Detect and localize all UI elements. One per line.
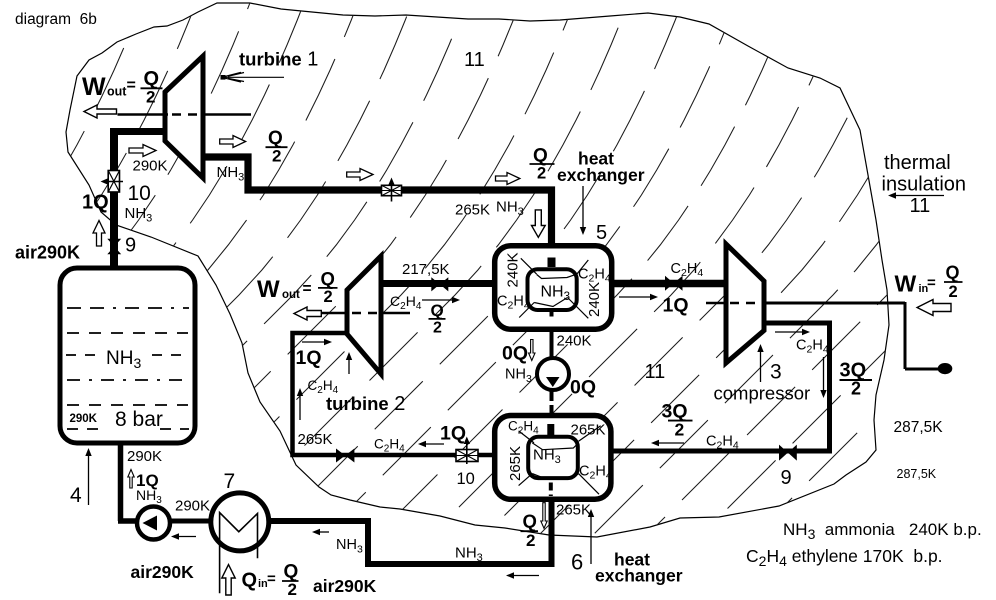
svg-text:insulation: insulation — [882, 174, 967, 196]
svg-text:5: 5 — [596, 222, 607, 244]
svg-text:air290K: air290K — [131, 562, 195, 582]
svg-text:240K: 240K — [557, 333, 592, 350]
throttle valve 10 (on heat exchanger 6 left pipe) — [456, 437, 478, 465]
valve bowtie 217,5K — [431, 277, 440, 291]
svg-text:10: 10 — [457, 470, 475, 488]
wire: 0Q circle to heat exchanger 6 top (dashed) — [550, 390, 554, 414]
thin arrow right C2H4 after turbine 2 — [422, 299, 457, 301]
thin arrow right C2H4 compressor outlet — [775, 331, 807, 333]
svg-text:W: W — [257, 276, 280, 303]
wire: NH3 main vertical pipe valve10 to tank — [110, 128, 118, 268]
small hollow arrow down Q/2 heat exchanger 6 bottom — [541, 503, 547, 529]
svg-text:=: = — [267, 571, 276, 588]
heat exchanger 7 circle — [211, 493, 269, 551]
svg-text:265K: 265K — [298, 431, 333, 448]
heat exchanger 6 corner diagonals — [519, 426, 601, 494]
hollow arrow W_out turbine 1 (left) — [84, 105, 117, 118]
thin arrow to turbine 1 label — [222, 72, 285, 82]
svg-text:Q: Q — [946, 263, 960, 283]
svg-text:1Q: 1Q — [296, 347, 322, 369]
svg-text:240K: 240K — [586, 282, 603, 317]
turbine 1 shaft — [118, 113, 252, 116]
turbine 2 — [347, 256, 381, 374]
tank liquid level dashed lines — [66, 308, 189, 429]
heat exchanger 5 — [495, 246, 612, 329]
svg-text:Q: Q — [523, 511, 537, 532]
svg-text:air290K: air290K — [313, 576, 377, 596]
svg-text:exchanger: exchanger — [557, 165, 645, 185]
thermal insulation blob outline — [66, 3, 889, 537]
svg-text:6: 6 — [571, 550, 583, 575]
heat exchanger 7 inner M coil — [220, 513, 258, 594]
hollow arrow W_in (left) — [917, 300, 951, 316]
svg-text:Q: Q — [242, 570, 258, 592]
thin arrow down 3Q/2 right loop — [823, 357, 825, 394]
svg-text:265K: 265K — [455, 202, 490, 219]
hollow arrow down into heat exchanger 5 — [532, 210, 546, 237]
svg-text:C2H4 ethylene 170K b.p.: C2H4 ethylene 170K b.p. — [746, 546, 943, 569]
wire: turbine 1 inlet pipe — [111, 128, 167, 135]
wire: heat exchanger 7 right pipe to heat exchanger 6 bottom — [268, 497, 552, 564]
hollow arrow up air290K node 9 — [93, 221, 105, 247]
svg-text:4: 4 — [70, 484, 82, 507]
thin arrow down heat exchanger label to 5 — [582, 186, 584, 231]
svg-text:=: = — [303, 281, 312, 298]
svg-text:=: = — [927, 275, 936, 292]
svg-text:265K: 265K — [507, 446, 524, 481]
svg-text:9: 9 — [781, 467, 792, 489]
svg-text:Q: Q — [321, 268, 335, 289]
valve bowtie 9 (right, compressor loop) — [779, 445, 788, 461]
thin arrow up to compressor — [760, 348, 762, 382]
circulation pump 0Q circle with down triangle — [537, 358, 569, 390]
hollow arrow right before heat exchanger 5 — [496, 173, 520, 185]
hollow arrow W_out turbine 2 (left) — [294, 307, 321, 320]
svg-text:290K: 290K — [133, 158, 168, 175]
wire: compressor outlet loop to heat exchanger 6 — [609, 323, 830, 451]
svg-text:thermal: thermal — [884, 152, 951, 174]
thin arrow left C2H4 on 9 line — [654, 442, 684, 444]
heat exchanger 6 — [495, 416, 611, 500]
pump P1 circle with left triangle — [137, 507, 170, 540]
thin arrow left NH3 heat exchanger 7 pipe — [315, 531, 329, 533]
svg-text:2: 2 — [851, 379, 861, 399]
thin arrow up C2H4 turbine 2 loop — [299, 392, 301, 420]
thin arrow right 1Q turbine 2 — [302, 341, 329, 343]
thin arrow left NH3 bottom pipe — [509, 575, 539, 577]
compressor U3 — [726, 244, 764, 363]
svg-text:7: 7 — [224, 470, 236, 493]
heat exchanger 5 inner vessel — [528, 269, 577, 310]
svg-text:10: 10 — [128, 182, 151, 205]
heat exchanger 5 bottom dashed stub — [550, 311, 554, 317]
svg-text:3: 3 — [770, 361, 782, 384]
hollow arrow right on top pipe — [347, 169, 373, 181]
svg-text:290K: 290K — [127, 448, 162, 465]
wire: turbine 1 outlet pipe to heat exchanger 5 — [203, 157, 552, 250]
svg-text:265K: 265K — [556, 502, 591, 519]
svg-text:out: out — [282, 289, 300, 301]
svg-text:diagram 6b: diagram 6b — [15, 11, 97, 28]
svg-text:exchanger: exchanger — [595, 566, 683, 586]
heat exchanger 6 bottom inner dash — [549, 483, 553, 497]
svg-text:air290K: air290K — [15, 243, 80, 263]
svg-text:287,5K: 287,5K — [894, 419, 944, 436]
heat exchanger 5 top dashed pipe segment — [548, 258, 556, 268]
svg-text:2: 2 — [537, 165, 546, 183]
throttle valve 10 (left, on NH3 pipe) — [101, 171, 124, 193]
thin arrow right 1Q compressor inlet — [619, 296, 655, 298]
svg-text:290K: 290K — [175, 498, 210, 515]
thin arrow left 1Q near throttle 10 — [421, 443, 444, 445]
turbine 1 — [165, 56, 203, 178]
wire: tank bottom pipe to pump — [118, 441, 140, 521]
thin arrow left under pump pipe — [174, 536, 196, 538]
wire: heat exchanger 5 to compressor pipe — [610, 280, 727, 288]
hollow arrow right 290K — [129, 145, 156, 157]
hollow arrow right above NH3 outlet — [220, 136, 246, 148]
hollow arrow up Q_in below heat exchanger 7 — [222, 565, 235, 595]
svg-text:W: W — [895, 271, 917, 297]
node: shaft end dot — [938, 363, 953, 374]
thin arrow left under insulation label — [891, 195, 944, 197]
small hollow arrow up 1Q tank bottom — [128, 470, 134, 489]
svg-text:2: 2 — [526, 531, 535, 550]
svg-text:Q: Q — [431, 301, 444, 320]
heat exchanger 6 inner vessel — [528, 437, 578, 478]
wire: turbine 2 loop left and bottom — [293, 333, 497, 455]
svg-text:2: 2 — [433, 320, 442, 337]
valve bowtie turbine 2 loop bottom — [336, 449, 345, 463]
wire: heat exchanger 5 bottom stub to pump circle 0Q — [550, 322, 554, 360]
svg-text:11: 11 — [645, 361, 666, 383]
svg-text:2: 2 — [146, 88, 155, 107]
compressor shaft dashed section — [706, 302, 727, 304]
svg-text:W: W — [82, 73, 106, 101]
wire: pump to heat exchanger 7 — [169, 519, 213, 524]
svg-text:2: 2 — [949, 283, 958, 301]
svg-text:9: 9 — [125, 235, 136, 257]
svg-text:8 bar: 8 bar — [115, 408, 163, 431]
svg-text:turbine 1: turbine 1 — [239, 49, 318, 71]
valve bowtie compressor inlet — [665, 276, 674, 291]
svg-text:287,5K: 287,5K — [897, 467, 937, 481]
svg-text:1Q: 1Q — [82, 192, 109, 214]
svg-text:11: 11 — [464, 49, 485, 71]
thin arrow up to turbine 2 — [348, 356, 350, 374]
svg-text:2: 2 — [324, 288, 333, 306]
heat exchanger 5 corner diagonals — [519, 258, 588, 318]
svg-text:compressor: compressor — [714, 383, 811, 404]
svg-text:265K: 265K — [571, 422, 606, 439]
throttle valve on top NH3 pipe — [382, 178, 402, 202]
heat exchanger 6 top dashed pipe segment — [547, 424, 554, 436]
svg-text:290K: 290K — [70, 413, 98, 425]
valve bowtie 9 (left, above tank) — [107, 239, 121, 247]
svg-text:out: out — [107, 85, 127, 99]
svg-text:0Q: 0Q — [502, 343, 528, 365]
svg-text:0Q: 0Q — [570, 377, 596, 399]
svg-text:1Q: 1Q — [663, 295, 689, 317]
thin arrow up node 4 tank — [88, 452, 90, 505]
NH3 tank — [60, 268, 195, 443]
wire: turbine 2 outlet pipe to heat exchanger 5 — [381, 280, 497, 287]
thin arrow up to heat exchanger 6 — [590, 513, 592, 564]
svg-text:11: 11 — [910, 195, 931, 217]
svg-text:217,5K: 217,5K — [402, 261, 450, 278]
svg-text:=: = — [127, 77, 136, 94]
svg-text:1Q: 1Q — [440, 423, 466, 445]
turbine 2 shaft — [322, 312, 410, 314]
small hollow arrow down 0Q — [529, 340, 535, 361]
svg-text:turbine 2: turbine 2 — [326, 393, 405, 415]
svg-text:2: 2 — [288, 580, 297, 599]
wire: compressor shaft to W_in corner with end dot — [764, 302, 941, 369]
svg-text:2: 2 — [272, 147, 281, 166]
svg-text:2: 2 — [675, 420, 685, 440]
svg-text:240K: 240K — [505, 252, 522, 287]
